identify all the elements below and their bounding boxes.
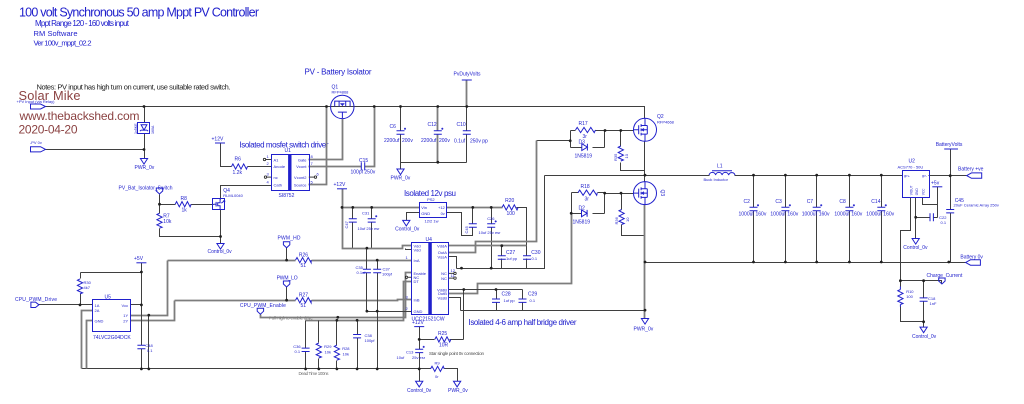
svg-text:1000uf: 1000uf <box>802 212 818 218</box>
wire: R20 riser to VddA <box>517 208 527 256</box>
capacitor C2 <box>739 199 767 218</box>
transistor Q2 RFP4668 <box>634 114 675 141</box>
svg-text:Source: Source <box>294 183 307 188</box>
ground Control_0v (C18) <box>912 327 937 340</box>
svg-text:C28: C28 <box>502 292 511 298</box>
resistor R9 <box>431 361 445 379</box>
svg-text:+5v: +5v <box>931 181 940 187</box>
port CPU_PWM_Drive <box>15 297 57 308</box>
wire: VddA wire <box>449 245 527 247</box>
svg-text:10uf: 10uf <box>397 355 406 360</box>
wire: C30 bottom <box>526 259 528 269</box>
svg-text:PvDutyVolts: PvDutyVolts <box>454 72 481 78</box>
junction (140.9,368.4) <box>140 368 143 371</box>
svg-text:C31: C31 <box>362 210 370 215</box>
wire: bottom rail <box>82 369 458 382</box>
capacitor C45b <box>464 224 477 234</box>
wire: Q4 drain up to U1 cath <box>221 186 272 200</box>
capacitor C38 <box>353 333 375 343</box>
resistor R35 <box>613 146 629 161</box>
junction (79.5,304.4) <box>79 304 82 307</box>
svg-text:1000uf: 1000uf <box>770 212 786 218</box>
svg-text:R8: R8 <box>181 196 188 202</box>
wire: charge current row <box>901 281 942 284</box>
svg-text:100: 100 <box>507 211 516 217</box>
svg-text:Vcont: Vcont <box>296 164 307 169</box>
capacitor C48 <box>137 343 153 353</box>
transistor Q3 <box>634 182 666 205</box>
svg-text:C6: C6 <box>390 124 397 130</box>
svg-text:200v: 200v <box>439 138 450 144</box>
svg-text:PV_Bat_Isolator_Switch: PV_Bat_Isolator_Switch <box>119 185 173 191</box>
capacitor C37 <box>373 267 393 277</box>
svg-text:R18: R18 <box>581 184 590 190</box>
svg-text:Vin: Vin <box>421 205 427 210</box>
junction (286.1,259.6) <box>285 259 288 262</box>
svg-text:10: 10 <box>625 217 630 222</box>
svg-text:VssB: VssB <box>438 296 448 301</box>
junction (337.3,316.8) <box>336 316 339 319</box>
svg-text:100 volt Synchronous 50 amp Mp: 100 volt Synchronous 50 amp Mppt PV Cont… <box>19 5 259 19</box>
junction (948.3,261.5) <box>947 261 950 264</box>
svg-text:+12V: +12V <box>412 320 424 326</box>
resistor R8 <box>175 196 191 214</box>
wire: +12V input rail <box>343 189 420 208</box>
capacitor C22 <box>930 213 947 225</box>
svg-text:Vcc: Vcc <box>122 303 129 308</box>
junction (816.2,261.5) <box>815 261 818 264</box>
wire: PS2 gnd to ground <box>407 213 420 221</box>
junction (949.7,175.2) <box>949 174 952 177</box>
capacitor C29 <box>519 292 538 303</box>
gate driver U4 UCC21521CW <box>405 237 456 322</box>
junction (373.7,106) <box>373 105 376 108</box>
svg-text:R27: R27 <box>299 293 308 299</box>
ground Control_0v (U2) <box>903 239 928 252</box>
wire: enable row <box>261 273 412 318</box>
svg-text:C7: C7 <box>807 199 814 205</box>
svg-text:C29: C29 <box>528 292 537 298</box>
svg-text:2200uf: 2200uf <box>384 138 400 144</box>
wire: 1Y riser <box>131 261 168 316</box>
svg-text:C12: C12 <box>428 122 437 128</box>
wire: spare drop x376.7 <box>377 261 379 369</box>
svg-text:R26: R26 <box>299 253 308 259</box>
test point PWM_LO <box>277 276 298 287</box>
svg-text:GND: GND <box>95 319 104 324</box>
wire: U1 source to left rail segment <box>309 107 327 185</box>
wire: U2 vcc to +5v <box>923 198 938 205</box>
wire: R18 leads <box>572 192 605 194</box>
svg-text:PWM_LO: PWM_LO <box>277 276 298 282</box>
wire: D2 leads <box>572 213 605 215</box>
wire: U4 vdd2 stub <box>406 249 412 250</box>
junction (501.3,245.2) <box>500 244 503 247</box>
svg-text:200v: 200v <box>402 138 413 144</box>
wire: C45b branch <box>472 208 474 224</box>
svg-text:Anode: Anode <box>274 164 286 169</box>
capacitor C3 <box>770 199 798 218</box>
svg-text:D3: D3 <box>579 140 586 146</box>
wire: VddB riser from R25 <box>463 290 465 340</box>
resistor R7 <box>157 213 172 228</box>
svg-text:4k7: 4k7 <box>84 285 91 290</box>
wire: R30 top link <box>81 272 142 274</box>
junction (336.4,319.8) <box>336 319 339 322</box>
wire: Q4 source down <box>220 210 222 237</box>
svg-text:R17: R17 <box>579 121 588 127</box>
wire: C31 branch <box>371 208 373 249</box>
wire: C45 branch <box>950 176 952 263</box>
wire: C28 branch <box>496 290 498 311</box>
junction (356.6,368.4) <box>356 368 359 371</box>
svg-text:100: 100 <box>906 294 913 299</box>
wire: U4 gnd row <box>367 311 412 313</box>
svg-text:InB: InB <box>414 298 420 303</box>
junction (148.3,314.6) <box>147 314 150 317</box>
ground PWR_0v (TVS) <box>135 159 155 172</box>
junction (371.2,206.9) <box>370 206 373 209</box>
svg-text:PV - Battery Isolator: PV - Battery Isolator <box>305 68 372 77</box>
wire: VssB pin drop <box>449 298 461 311</box>
svg-text:C2: C2 <box>744 199 751 205</box>
junction (644.5,309.6) <box>644 309 647 312</box>
wire: mid rail right part <box>735 175 903 177</box>
svg-text:RM Software: RM Software <box>34 29 78 38</box>
svg-text:+12: +12 <box>438 205 446 210</box>
wire: R29 branch <box>318 321 320 369</box>
svg-text:1N5819: 1N5819 <box>573 219 591 225</box>
svg-text:Dead Time 100ns: Dead Time 100ns <box>299 371 330 376</box>
svg-text:GND: GND <box>414 309 423 314</box>
junction (366.4,247.6) <box>366 247 369 250</box>
svg-text:PWR_0v: PWR_0v <box>135 165 155 171</box>
power +5v (U2) <box>931 181 942 187</box>
svg-text:SI8752: SI8752 <box>279 193 295 199</box>
svg-text:0.1: 0.1 <box>295 349 301 354</box>
svg-text:0.1: 0.1 <box>941 220 947 225</box>
wire: cpu pwm drive in <box>39 304 93 306</box>
svg-text:CPU_PWM_Enable: CPU_PWM_Enable <box>240 303 286 309</box>
svg-text:+PV Input (via Relay): +PV Input (via Relay) <box>17 99 56 104</box>
junction (352.3,206.9) <box>351 206 354 209</box>
svg-text:VddA: VddA <box>437 244 447 249</box>
wire: R18/D2 left vertical <box>571 193 573 214</box>
ground Control_0v (PS2) <box>395 220 420 232</box>
wire: U5 vcc <box>131 304 142 306</box>
svg-text:10k: 10k <box>325 350 331 355</box>
port -PV 0v <box>30 140 46 152</box>
wire: OutB route to low side <box>449 214 572 294</box>
wire: C12 branch <box>437 107 439 163</box>
svg-text:1uf pp: 1uf pp <box>506 256 518 261</box>
svg-text:1nF: 1nF <box>930 301 937 306</box>
junction (472.3,206.9) <box>471 206 474 209</box>
junction (366.4,310.6) <box>366 310 369 313</box>
wire: R36 stems <box>622 194 645 236</box>
wire: R17 leads <box>571 130 605 132</box>
wire: mid rail left part <box>545 175 710 177</box>
wire: R30 stems <box>80 273 82 305</box>
svg-text:U1: U1 <box>285 148 292 154</box>
capacitor C18 <box>920 296 937 306</box>
svg-text:C45: C45 <box>464 225 469 233</box>
wire: U5 2A <box>82 311 93 369</box>
svg-text:-PV 0v: -PV 0v <box>30 140 42 145</box>
capacitor C36 <box>293 344 309 354</box>
wire: +5v spine <box>141 263 143 369</box>
svg-text:10uf 25v esr: 10uf 25v esr <box>358 226 381 231</box>
junction (418.7,338.9) <box>418 338 421 341</box>
svg-text:Isolated 4-6 amp half bridge d: Isolated 4-6 amp half bridge driver <box>469 318 577 327</box>
svg-text:PS2: PS2 <box>427 197 435 202</box>
junction (848.9,174.6) <box>848 174 851 177</box>
wire: C36 branch <box>305 321 307 369</box>
wire: 1Y spare drop <box>148 316 150 369</box>
junction (437.3,161.7) <box>436 161 439 164</box>
ground PWR_0v (R9) <box>448 381 468 394</box>
resistor R25 <box>435 331 451 348</box>
resistor R6 <box>232 156 248 176</box>
port +PV input <box>17 99 56 109</box>
svg-text:0.1: 0.1 <box>147 348 153 353</box>
port Battery 0v <box>960 255 983 266</box>
wire: R18/D2 right vertical <box>604 193 606 214</box>
junction (376.7,259.6) <box>376 259 379 262</box>
diode D3 1N5819 <box>575 140 593 160</box>
svg-text:C14: C14 <box>871 199 880 205</box>
svg-text:D2: D2 <box>579 206 586 212</box>
svg-text:Star single point 0v connectio: Star single point 0v connection <box>429 351 484 356</box>
junction (159,203.7) <box>158 203 161 206</box>
svg-text:PWM_HD: PWM_HD <box>278 236 301 242</box>
svg-text:VIOUT: VIOUT <box>909 186 913 196</box>
svg-text:R35: R35 <box>613 153 618 161</box>
junction (848.9,261.5) <box>848 261 851 264</box>
svg-text:51: 51 <box>301 263 307 269</box>
transistor Q4 <box>213 188 244 210</box>
svg-text:Vdd: Vdd <box>414 248 421 253</box>
svg-text:Cath: Cath <box>274 183 282 188</box>
wire: PS2 +12 out rail <box>447 207 503 209</box>
capacitor C47 <box>344 219 357 229</box>
svg-text:CPU_PWM_Drive: CPU_PWM_Drive <box>15 297 57 303</box>
junction (495.5,289) <box>495 288 498 291</box>
capacitor C15 <box>351 158 376 176</box>
junction (880.8,174.6) <box>880 174 883 177</box>
wire: R35 stems <box>621 131 645 171</box>
svg-text:R9: R9 <box>435 361 441 366</box>
svg-text:10R: 10R <box>439 343 449 349</box>
port Battery +ve <box>958 167 984 179</box>
wire: control ground stem bottom <box>419 369 421 382</box>
svg-text:250v pp: 250v pp <box>470 138 488 144</box>
svg-text:100pf: 100pf <box>365 338 376 343</box>
svg-text:10k: 10k <box>163 219 172 225</box>
junction (463.3,289) <box>462 288 465 291</box>
resistor R29 <box>316 343 332 358</box>
wire: PvDutyVolts stem <box>466 81 468 107</box>
ground PWR_0v (Q3) <box>634 319 654 333</box>
svg-text:Q3: Q3 <box>659 190 665 197</box>
junction (318.3,368.4) <box>317 368 320 371</box>
svg-text:2020-04-20: 2020-04-20 <box>19 123 78 137</box>
wire: C28/C29 bottom row <box>461 310 523 312</box>
junction (784.9,261.5) <box>784 261 787 264</box>
resistor R18 <box>578 184 597 203</box>
inverter U5 74LVC2G04 <box>93 295 132 341</box>
wire: R28 branch <box>336 321 338 369</box>
svg-text:1v5KE: 1v5KE <box>134 123 138 134</box>
power +12V (PS2) <box>334 182 348 189</box>
svg-text:GND: GND <box>421 211 430 216</box>
wire: InA row <box>168 260 412 262</box>
svg-text:0.1: 0.1 <box>532 256 538 261</box>
svg-text:R28: R28 <box>342 346 350 351</box>
junction (620.3,130) <box>619 129 622 132</box>
svg-text:Charge_Current: Charge_Current <box>927 273 963 279</box>
wire: bottom 0v rail <box>645 262 952 264</box>
junction (148.3,368.4) <box>147 368 150 371</box>
junction (816.2,174.6) <box>815 174 818 177</box>
svg-text:U5: U5 <box>105 295 112 301</box>
wire: VddB row <box>449 289 523 291</box>
svg-text:R29: R29 <box>324 344 332 349</box>
svg-text:12/2 1w: 12/2 1w <box>425 218 439 223</box>
capacitor C12 <box>421 122 450 144</box>
wire: +PV top rail <box>46 107 645 119</box>
resistor R20 <box>502 198 518 217</box>
svg-text:10: 10 <box>624 153 629 158</box>
wire: C27 stub <box>501 246 503 269</box>
svg-text:VssA: VssA <box>438 254 448 259</box>
wire: C6 branch <box>400 107 402 163</box>
junction (356.6,319.8) <box>356 319 359 322</box>
svg-text:Control_0v: Control_0v <box>407 388 432 394</box>
ground Control_0v (C13) <box>407 381 432 394</box>
junction (326,106) <box>325 105 328 108</box>
capacitor C10 <box>454 122 488 144</box>
svg-text:Gate: Gate <box>298 157 307 162</box>
capacitor C28 <box>492 292 515 303</box>
wire: +5v stem <box>937 187 939 218</box>
wire: C47 branch <box>352 208 354 249</box>
resistor R30 <box>77 279 91 294</box>
svg-text:ACS770 - 50U: ACS770 - 50U <box>898 164 924 169</box>
svg-text:RFP4868: RFP4868 <box>332 90 350 95</box>
junction (286.1,299.7) <box>285 299 288 302</box>
svg-text:C10: C10 <box>457 122 466 128</box>
svg-text:R25: R25 <box>438 331 447 337</box>
capacitor C35 <box>356 265 371 275</box>
junction (305.1,368.4) <box>304 368 307 371</box>
svg-text:1N5819: 1N5819 <box>575 153 593 159</box>
svg-text:1.2k: 1.2k <box>233 170 243 176</box>
junction (140.9,304.4) <box>140 304 143 307</box>
junction (753,174.6) <box>752 174 755 177</box>
wire: U2 out to battery port <box>929 175 967 177</box>
psu PS2 <box>420 197 447 223</box>
power +5V (U5) <box>134 256 146 263</box>
resistor R36 <box>614 210 630 225</box>
svg-text:C15: C15 <box>359 158 368 164</box>
svg-text:BatteryVolts: BatteryVolts <box>936 142 963 148</box>
ground Control_0v (Q4) <box>208 244 233 256</box>
junction (604.2,192.6) <box>603 192 606 195</box>
wire: VssA rail <box>449 176 545 269</box>
svg-text:VCC: VCC <box>921 188 925 195</box>
junction (784.9,174.6) <box>784 174 787 177</box>
test point Charge_Current <box>927 273 963 284</box>
junction (461,267.6) <box>460 267 463 270</box>
svg-text:Control_0v: Control_0v <box>208 249 233 255</box>
power +12V (U1) <box>212 137 226 144</box>
resistor R27 <box>296 293 312 309</box>
port CPU_PWM_Enable <box>240 303 286 314</box>
wire: U5 gnd <box>87 321 93 369</box>
svg-text:Control_0v: Control_0v <box>903 245 928 251</box>
svg-text:Control_0v: Control_0v <box>912 334 937 340</box>
svg-text:RFP4668: RFP4668 <box>657 120 675 125</box>
svg-text:+12V: +12V <box>212 137 224 143</box>
current sensor U2 ACS770 <box>898 159 930 198</box>
test point BatteryVolts <box>936 142 963 149</box>
svg-text:PWR_0v: PWR_0v <box>634 327 654 333</box>
junction (880.8,261.5) <box>880 261 883 264</box>
svg-text:160v: 160v <box>787 212 798 218</box>
wire: C22 row <box>916 217 938 219</box>
wire: R6 to U1 anode <box>248 166 272 168</box>
transistor Q1 RFP4868 <box>331 84 354 118</box>
wire: R25 leads <box>420 339 464 341</box>
wire: cap bottoms join <box>401 163 467 169</box>
svg-text:10k: 10k <box>343 352 349 357</box>
svg-text:25v esr: 25v esr <box>412 355 426 360</box>
test point PWM_HD <box>278 236 301 248</box>
svg-text:IP+: IP+ <box>904 174 911 179</box>
wire: R8 to Q4 gate <box>191 204 214 206</box>
junction (376.7,368.4) <box>376 368 379 371</box>
capacitor C26 <box>479 216 502 235</box>
resistor R10 <box>898 287 915 307</box>
wire: C18 branch <box>923 281 925 322</box>
svg-text:2200uf: 2200uf <box>421 138 437 144</box>
TVS D1 <box>134 123 155 135</box>
wire: U2 viout down <box>901 198 911 287</box>
junction (140.9,271.5) <box>140 271 143 274</box>
svg-text:160v: 160v <box>851 212 862 218</box>
svg-text:C8: C8 <box>839 199 846 205</box>
junction (466.3,106) <box>465 105 468 108</box>
junction (620.5,192.6) <box>620 192 623 195</box>
junction (915.2,216.8) <box>914 216 917 219</box>
svg-text:IP-: IP- <box>922 174 928 179</box>
svg-text:A1: A1 <box>274 157 280 162</box>
svg-text:R20: R20 <box>505 198 514 204</box>
title block <box>19 5 259 47</box>
junction (923.1,321.3) <box>922 320 925 323</box>
svg-text:InA: InA <box>414 258 420 263</box>
wire: isolator switch port stem <box>160 195 176 205</box>
junction (143.5,106) <box>143 105 146 108</box>
svg-text:160A: 160A <box>151 125 155 134</box>
junction (753,261.5) <box>752 261 755 264</box>
wire: DT row <box>306 282 412 321</box>
wire: D3 leads <box>571 147 605 149</box>
junction (570.7,212.8) <box>570 212 573 215</box>
wire: Q2 gate row <box>605 130 634 132</box>
capacitor C31 <box>358 210 381 231</box>
